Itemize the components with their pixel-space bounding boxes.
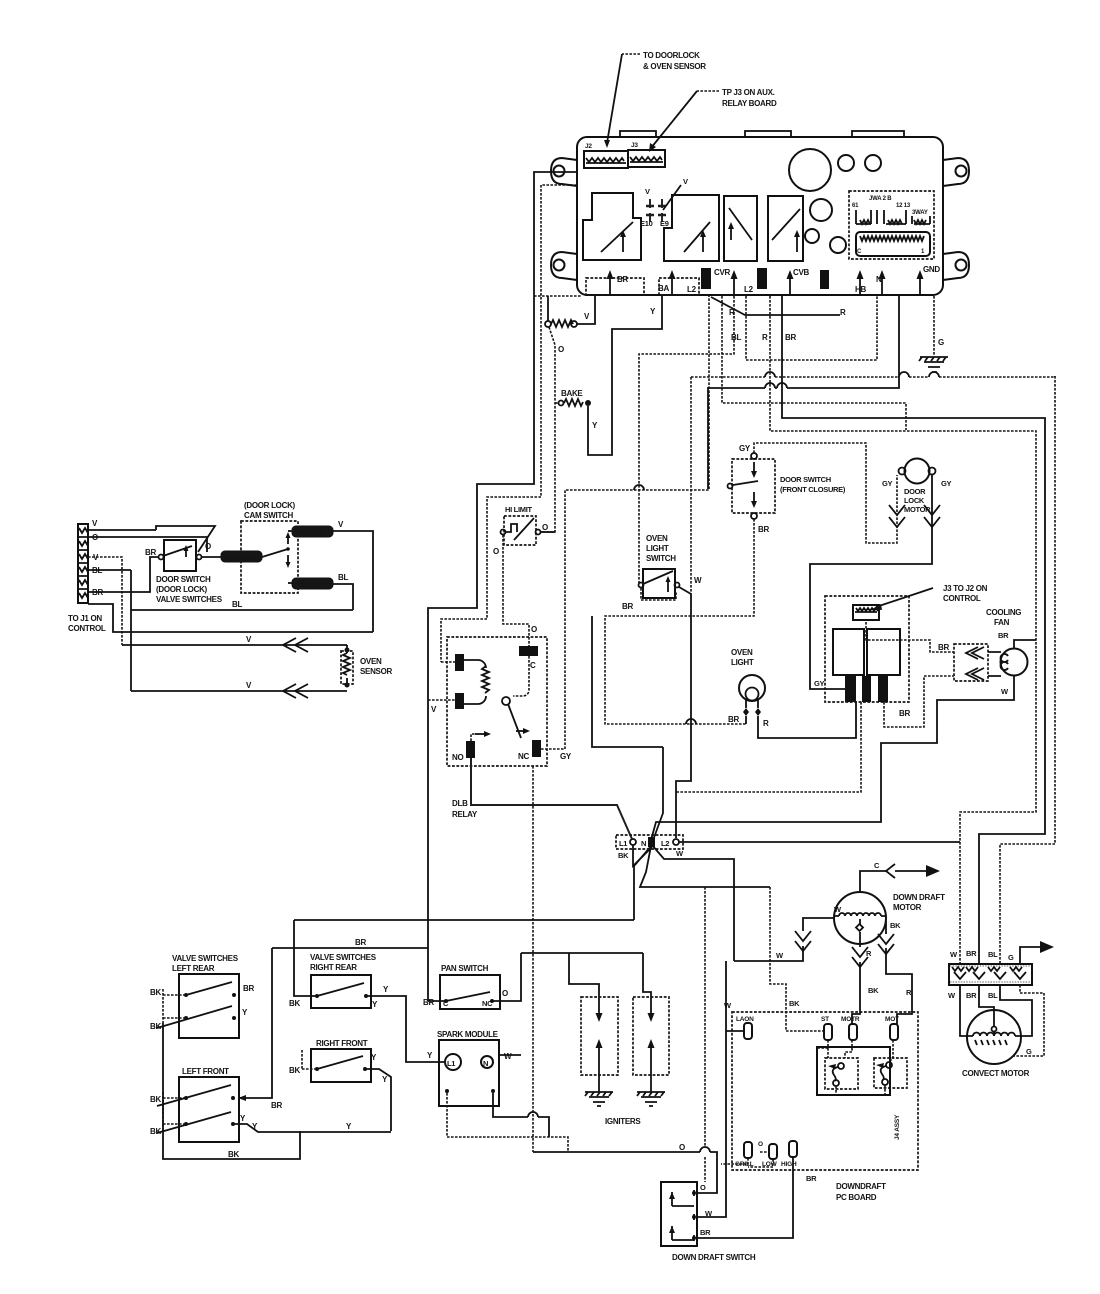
svg-text:PAN SWITCH: PAN SWITCH (441, 964, 489, 973)
svg-text:BL: BL (988, 950, 998, 959)
wire connector to fan stubs (988, 652, 1001, 676)
PC relay 2 contacts (876, 1062, 892, 1085)
wire CVR pin to oven light switch (639, 296, 734, 583)
wire lamp left BR (745, 716, 747, 724)
svg-text:L1: L1 (619, 839, 627, 848)
svg-text:BR: BR (243, 984, 254, 993)
wire LOCK BL right down (333, 584, 353, 610)
wire door lock motor right down (810, 475, 932, 689)
svg-text:BR: BR (899, 709, 910, 718)
cam switch box (241, 501, 298, 593)
svg-text:BAKE: BAKE (561, 389, 583, 398)
wire downdraft motor BK right down (878, 921, 912, 1024)
svg-text:COOLING: COOLING (986, 608, 1021, 617)
wire pan switch O out (492, 953, 521, 1001)
wire door switch to COMMON (202, 556, 221, 558)
board bottom pin HB (855, 270, 866, 294)
wire J1 V top (88, 529, 156, 531)
svg-text:VALVE SWITCHES: VALVE SWITCHES (156, 595, 223, 604)
svg-text:N: N (641, 839, 646, 848)
svg-text:DLB: DLB (452, 799, 468, 808)
board circle small A (838, 155, 854, 171)
wire fan top to right bus (1014, 640, 1036, 648)
wire x705 down (704, 887, 706, 1182)
control board outline (577, 131, 943, 295)
wire convect W (960, 985, 968, 1036)
wire G arrow off page (1020, 941, 1054, 964)
connector GRILL (735, 1142, 754, 1168)
svg-text:SPARK MODULE: SPARK MODULE (437, 1030, 499, 1039)
svg-text:O: O (502, 989, 508, 998)
svg-text:(FRONT CLOSURE): (FRONT CLOSURE) (780, 485, 846, 494)
wire board-left exit V lower (441, 185, 577, 662)
right fanout: diagonal R from L2 pad (711, 297, 846, 317)
svg-text:GY: GY (941, 479, 952, 488)
PC relay 1 contacts (828, 1063, 844, 1086)
svg-text:TO J1 ON: TO J1 ON (68, 614, 102, 623)
svg-text:LEFT REAR: LEFT REAR (172, 964, 215, 973)
DLB coil pads left (431, 654, 464, 714)
LOCK capsule (288, 573, 348, 589)
svg-text:SWITCH: SWITCH (646, 554, 676, 563)
svg-text:G: G (938, 338, 944, 347)
svg-text:BR: BR (145, 548, 156, 557)
svg-text:BK: BK (228, 1150, 239, 1159)
svg-text:12 13: 12 13 (896, 203, 911, 209)
svg-text:OVEN: OVEN (646, 534, 668, 543)
PC board relay sub-box (817, 1047, 907, 1095)
board bottom pin L2 second pad (744, 268, 767, 294)
svg-text:MOT: MOT (885, 1016, 899, 1023)
UNLOCK capsule (288, 520, 344, 537)
wire convect BL (1000, 985, 1032, 1036)
PC board internal wires (786, 1031, 893, 1095)
igniter 2 ground (637, 1072, 665, 1106)
right fanout: U wire under board (746, 296, 877, 360)
svg-text:& OVEN SENSOR: & OVEN SENSOR (643, 62, 706, 71)
convect motor (962, 1010, 1030, 1078)
DLB contact and blade (502, 650, 529, 738)
svg-text:DOOR SWITCH: DOOR SWITCH (156, 575, 211, 584)
connector J2 on board (584, 143, 628, 168)
board circle small D (805, 229, 819, 243)
svg-text:CONVECT MOTOR: CONVECT MOTOR (962, 1069, 1030, 1078)
wire right rear Y out (366, 996, 444, 1062)
connector J3 on board (628, 142, 665, 167)
svg-text:BR: BR (271, 1101, 282, 1110)
cam switch blade (262, 532, 291, 568)
svg-text:MOTR: MOTR (841, 1016, 860, 1023)
svg-text:LIGHT: LIGHT (646, 544, 669, 553)
svg-text:O: O (493, 547, 499, 556)
J3 to J2 connector (853, 584, 988, 620)
wire O long line (533, 1143, 717, 1193)
svg-text:RIGHT REAR: RIGHT REAR (310, 963, 357, 972)
wire UNLOCK V right down (333, 531, 373, 632)
svg-text:BR: BR (966, 991, 977, 1000)
svg-text:SENSOR: SENSOR (360, 667, 393, 676)
connector LOW (758, 1141, 778, 1168)
wire right rear BK (294, 920, 317, 996)
svg-text:MOTOR: MOTOR (893, 903, 922, 912)
relay K4 on board (768, 196, 803, 261)
component MOTR (841, 1016, 860, 1040)
wire HIGH to BR (697, 1157, 817, 1238)
wire J3 connector to cooling fan upper (866, 622, 954, 652)
wire board bottom-left stub (534, 295, 581, 297)
svg-text:V: V (645, 187, 650, 196)
svg-text:DOOR SWITCH: DOOR SWITCH (780, 475, 831, 484)
leader: TP J3 ON AUX. RELAY BOARD (649, 88, 777, 152)
DLB NC pad (516, 728, 541, 761)
down draft motor (834, 892, 945, 944)
DLB relay box (447, 637, 547, 819)
svg-text:R: R (763, 719, 769, 728)
svg-text:O: O (758, 1141, 763, 1148)
wire lamp right R to assembly (758, 702, 856, 738)
svg-text:BK: BK (868, 986, 879, 995)
oven sensor (341, 645, 393, 688)
pan switch (423, 964, 508, 1009)
aux connector block on board (849, 191, 934, 259)
svg-text:CVB: CVB (793, 268, 810, 277)
svg-text:W: W (694, 576, 702, 585)
relay K3 on board (724, 196, 757, 261)
cooling fan motor (986, 608, 1028, 696)
svg-text:J2: J2 (585, 143, 592, 150)
right fanout: long wire y377 (691, 376, 1055, 377)
wire GRILL LOW link (721, 1152, 773, 1167)
svg-text:C: C (530, 661, 536, 670)
connector arrows GY left (889, 505, 905, 527)
relay K1 on board (583, 193, 641, 260)
svg-text:BR: BR (938, 643, 949, 652)
spark module (437, 1030, 512, 1106)
fuse LAON (726, 1016, 754, 1039)
wire bake Y to board (588, 296, 662, 455)
svg-text:HIGH: HIGH (781, 1161, 797, 1168)
svg-text:O: O (679, 1143, 685, 1152)
svg-text:BR: BR (622, 602, 633, 611)
svg-text:G: G (1008, 953, 1014, 962)
wire L2 long line right (679, 841, 960, 843)
svg-text:BR: BR (998, 631, 1009, 640)
svg-text:NC: NC (482, 999, 493, 1008)
svg-text:N: N (876, 275, 882, 284)
svg-text:BK: BK (289, 999, 300, 1008)
assembly bottom pads (845, 676, 888, 702)
svg-text:BL: BL (338, 573, 348, 582)
svg-text:RELAY: RELAY (452, 810, 478, 819)
oven light switch (622, 534, 702, 611)
board bottom pin CVR (714, 268, 738, 294)
wire DLB NO heavy to L1 (471, 758, 632, 839)
board bottom pin BA (658, 270, 699, 295)
svg-text:DOWN DRAFT SWITCH: DOWN DRAFT SWITCH (672, 1253, 756, 1262)
svg-text:C: C (874, 861, 880, 870)
svg-text:R: R (866, 949, 872, 958)
component ST (821, 1016, 832, 1040)
svg-text:E10: E10 (640, 219, 653, 228)
svg-text:J3 TO J2 ON: J3 TO J2 ON (943, 584, 988, 593)
DLB NO pad (452, 731, 491, 762)
wire spark module bottom left (447, 1093, 568, 1152)
wire downdraft motor W left (724, 918, 834, 1010)
svg-text:FAN: FAN (994, 618, 1010, 627)
mounting ear bottom-left (551, 252, 577, 280)
svg-text:BK: BK (789, 999, 800, 1008)
wire pan switch BR in (428, 1000, 446, 1002)
wire convect BR (979, 985, 994, 1027)
wire assembly L2 dashed (676, 702, 861, 792)
board bottom pin BR (586, 270, 644, 295)
board bottom pin N (876, 270, 886, 294)
ground wire from board (933, 296, 935, 355)
svg-text:OVEN: OVEN (731, 648, 753, 657)
svg-text:BL: BL (988, 991, 998, 1000)
svg-text:COMMON: COMMON (224, 555, 254, 562)
terminal strip L1 N L2 (616, 835, 683, 860)
svg-text:BR: BR (806, 1174, 817, 1183)
svg-text:ST: ST (821, 1016, 829, 1023)
svg-text:CONTROL: CONTROL (943, 594, 981, 603)
wire BL long (88, 570, 353, 691)
svg-text:O: O (205, 542, 211, 551)
svg-text:BR: BR (785, 333, 796, 342)
svg-text:BL: BL (731, 333, 741, 342)
svg-text:V: V (683, 177, 688, 186)
svg-text:G: G (1026, 1047, 1032, 1056)
door switch front closure (728, 444, 846, 534)
bake element (555, 389, 591, 406)
svg-text:BR: BR (355, 938, 366, 947)
svg-text:BR: BR (758, 525, 769, 534)
mounting ear top-right (943, 158, 969, 186)
svg-text:E9: E9 (660, 219, 669, 228)
wire GY door switch to motor (754, 443, 897, 543)
svg-text:61: 61 (852, 203, 859, 209)
igniter 2 (633, 997, 669, 1075)
door switch doorlock flag (156, 526, 215, 552)
right fanout: wire y388 (708, 296, 899, 489)
svg-text:RELAY BOARD: RELAY BOARD (722, 99, 777, 108)
wire oven light switch BR elbow (641, 588, 676, 600)
svg-text:GY: GY (739, 444, 751, 453)
svg-text:BK: BK (150, 1127, 161, 1136)
svg-text:LOCK: LOCK (904, 496, 925, 505)
door lock motor (882, 459, 952, 515)
svg-text:RIGHT FRONT: RIGHT FRONT (316, 1039, 368, 1048)
mounting ear bottom-right (943, 252, 969, 280)
svg-text:N: N (483, 1059, 488, 1068)
leader: TO DOORLOCK & OVEN SENSOR (604, 51, 706, 148)
door lock assembly box (825, 596, 909, 702)
svg-text:O: O (542, 523, 548, 532)
svg-text:LAON: LAON (736, 1016, 754, 1023)
wire BR to left front (238, 948, 282, 1110)
wire y691 vertical from oven light sw region (690, 377, 692, 594)
wire right front stubs (302, 1050, 317, 1069)
right fanout: wire y418 (782, 296, 1045, 964)
wire V arrow upper (122, 635, 347, 652)
svg-text:PC BOARD: PC BOARD (836, 1193, 877, 1202)
svg-text:GND: GND (923, 265, 940, 274)
capacitor E10 (640, 187, 654, 228)
left front stubs (163, 1092, 186, 1132)
left rear stubs (163, 989, 186, 1023)
hop BR over x692 (686, 719, 696, 724)
svg-text:BK: BK (618, 851, 629, 860)
valve switches left rear (150, 954, 254, 1038)
svg-text:BR: BR (700, 1228, 711, 1237)
J1 connector (68, 519, 106, 633)
wire spark module W (499, 1054, 521, 1056)
svg-text:CVR: CVR (714, 268, 731, 277)
svg-text:DOWNDRAFT: DOWNDRAFT (836, 1182, 886, 1191)
wire broil to hi-limit O (540, 327, 564, 532)
board circle mid C (810, 199, 832, 221)
svg-text:BK: BK (890, 921, 901, 930)
svg-text:L2: L2 (687, 285, 697, 294)
board circle small B (865, 155, 881, 171)
svg-text:OVEN: OVEN (360, 657, 382, 666)
wire J1 V2 down (88, 557, 122, 645)
wire oven light switch W to L2 (676, 587, 691, 838)
wire fan bottom W return to N (651, 676, 1014, 840)
svg-text:HB: HB (855, 285, 866, 294)
svg-text:(DOOR LOCK): (DOOR LOCK) (244, 501, 296, 510)
left front switch (150, 1067, 239, 1142)
svg-text:DOOR: DOOR (904, 487, 926, 496)
wire V arrow lower (131, 681, 347, 698)
svg-text:GY: GY (814, 679, 825, 688)
convect connector strip (948, 949, 1032, 1000)
board bottom pin L2 pad (687, 268, 711, 294)
svg-text:BK: BK (150, 1095, 161, 1104)
svg-text:VALVE SWITCHES: VALVE SWITCHES (310, 953, 377, 962)
svg-text:JWA 2 B: JWA 2 B (869, 196, 892, 202)
right fanout: wire y376 long to right (1000, 376, 1055, 964)
valve switches right rear (289, 953, 389, 1009)
oven light lamp (728, 648, 769, 728)
COMMON capsule (221, 551, 262, 562)
wire DLB lower coil pad to left V wire (428, 699, 455, 701)
svg-text:GY: GY (882, 479, 893, 488)
board bottom pad dark (820, 270, 829, 289)
svg-text:J4 ASSY: J4 ASSY (894, 1114, 901, 1140)
svg-text:HI LIMIT: HI LIMIT (505, 505, 532, 514)
svg-text:L2: L2 (744, 285, 754, 294)
right fanout: wire y403 (722, 296, 906, 430)
wire DLB NC to board L2 (541, 296, 709, 749)
wire spark module bottom right (493, 1093, 549, 1137)
svg-text:LOCK: LOCK (302, 582, 320, 589)
igniter 1 (581, 997, 618, 1075)
svg-text:CAM SWITCH: CAM SWITCH (244, 511, 294, 520)
svg-text:TP J3 ON AUX.: TP J3 ON AUX. (722, 88, 775, 97)
svg-text:R: R (762, 333, 768, 342)
wire down draft switch W (697, 961, 726, 1217)
svg-text:IGNITERS: IGNITERS (605, 1117, 641, 1126)
igniter 1 ground (585, 1072, 613, 1106)
wire broil left up to bus (547, 296, 549, 321)
DLB C pad (519, 625, 538, 670)
svg-text:BR: BR (617, 275, 628, 284)
svg-text:J3: J3 (631, 142, 638, 149)
hop NC wire over x639 (634, 485, 644, 490)
svg-text:NC: NC (518, 752, 529, 761)
svg-text:TO DOORLOCK: TO DOORLOCK (643, 51, 700, 60)
svg-text:BK: BK (150, 988, 161, 997)
svg-text:L2: L2 (661, 839, 669, 848)
hi-limit switch (493, 505, 548, 556)
svg-text:BR: BR (423, 998, 434, 1007)
right front switch (289, 1039, 388, 1084)
connector arrows GY right (924, 505, 940, 527)
wire board-left exit V upper (428, 172, 577, 1001)
wire Y long bottom (233, 1114, 391, 1132)
broil element (545, 312, 590, 327)
svg-text:LIGHT: LIGHT (731, 658, 754, 667)
svg-text:UNLOCK: UNLOCK (297, 530, 324, 537)
svg-text:W: W (504, 1052, 512, 1061)
wire downdraft motor R down (852, 932, 879, 1024)
svg-text:BR: BR (728, 715, 739, 724)
wire assembly BR to cooling fan (884, 676, 954, 727)
node N junction diagonals (592, 616, 770, 961)
wire DLB left coil pad V feed (441, 661, 455, 663)
svg-text:VALVE SWITCHES: VALVE SWITCHES (172, 954, 239, 963)
wire O distribution (521, 953, 651, 1001)
relay K2 on board (664, 195, 719, 261)
svg-text:O: O (700, 1183, 706, 1192)
wire hi-limit O horizontal feed (540, 531, 555, 533)
wire BR door switch down to oven light (605, 519, 754, 724)
svg-text:(DOOR LOCK): (DOOR LOCK) (156, 585, 208, 594)
svg-text:LEFT FRONT: LEFT FRONT (182, 1067, 229, 1076)
wire left BK chain (163, 1023, 300, 1159)
right fanout: wire y431 (770, 296, 1036, 964)
svg-text:BK: BK (150, 1022, 161, 1031)
wire downdraft motor C arrow (860, 861, 940, 892)
svg-text:O: O (531, 625, 537, 634)
svg-text:BR: BR (966, 949, 977, 958)
svg-text:L1: L1 (447, 1059, 455, 1068)
svg-text:NO: NO (452, 753, 463, 762)
ground symbol main (919, 357, 948, 372)
svg-text:O: O (558, 345, 564, 354)
wire J1 BR to door switch (88, 557, 158, 592)
board bottom pin CVB (787, 268, 810, 294)
down draft switch (661, 1182, 756, 1262)
wire J1 O to door switch (88, 537, 207, 552)
svg-text:R: R (840, 308, 846, 317)
connector HIGH (781, 1141, 797, 1168)
DLB coil (464, 660, 489, 704)
svg-text:GY: GY (560, 752, 572, 761)
svg-text:R: R (906, 988, 912, 997)
mounting ear top-left (551, 158, 577, 186)
wire right front Y down (365, 1069, 391, 1131)
wire broil right V to board (577, 296, 595, 324)
cooling fan connector (954, 644, 988, 681)
svg-text:DOWN DRAFT: DOWN DRAFT (893, 893, 945, 902)
downdraft PC board (732, 1012, 918, 1202)
wire DLB bottom to O line (532, 766, 534, 1152)
component MOT (885, 1016, 899, 1040)
svg-text:BK: BK (289, 1066, 300, 1075)
wire BK x770 to PC board (770, 887, 800, 1031)
